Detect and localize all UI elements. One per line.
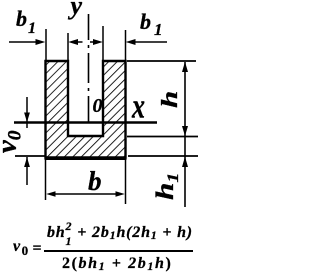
y axis (dash-dot centerline) [88,14,90,122]
v0 extension line at flange bottom (left) [15,155,45,157]
b dimension line with arrows [52,193,119,195]
h and h1 dimension line (vertical, continuous) [184,62,186,207]
b1 right dim line inner segment + arrow [90,41,96,43]
v0 dimension lower segment (arrow up to flange bottom) [26,157,28,185]
b1 left: extension line at x=46 [45,29,47,61]
label v0 (left, rotated) [0,130,25,152]
b1 left dim line inner segment + arrow [74,41,83,43]
v0 dimension upper segment (arrow down to x axis) [26,97,28,128]
label x (x axis) [132,89,145,124]
formula [0,218,202,220]
x axis [14,121,157,123]
h extension line at top of walls (right) [127,60,196,62]
b1 right: extension line at x=103 [102,26,104,61]
section bottom thick edge [45,157,127,160]
b1 left dim line outer segment + arrow [9,41,38,43]
channel section body (hatched U-shape) [46,61,126,158]
h arrow up [182,62,188,72]
b extension line right [125,158,127,204]
label b1 (top left) [16,8,36,37]
b1 right: extension line at x=125.5 [125,30,127,61]
b1 right dim line outer segment + arrow [132,41,167,43]
b1 left: extension line at x=68 [67,33,69,61]
h1 extension line at flange bottom (right) [128,155,198,157]
fraction bar [44,250,193,252]
b extension line left [45,158,47,200]
label b (bottom) [88,168,102,195]
h1 arrow up [182,157,188,167]
label y (y axis) [71,0,83,19]
h arrow down [182,126,188,136]
label h (right, rotated) [158,91,181,108]
label b1 (top right) [140,11,163,38]
h/h1 extension line at flange top (right) [127,136,198,138]
label O (origin) [93,96,103,116]
label h1 (bottom right, rotated) [153,172,182,199]
